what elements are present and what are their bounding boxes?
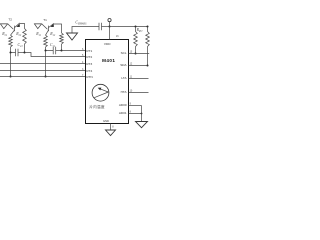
junction bbox=[141, 113, 143, 115]
svg-text:R22: R22 bbox=[15, 32, 22, 37]
svg-text:8: 8 bbox=[130, 111, 132, 114]
transistor T1 bbox=[46, 23, 54, 35]
svg-text:AD01: AD01 bbox=[119, 111, 127, 115]
svg-text:GND: GND bbox=[103, 119, 109, 123]
svg-text:16: 16 bbox=[116, 35, 119, 38]
svg-text:R11: R11 bbox=[35, 32, 41, 37]
junction bbox=[10, 76, 12, 78]
wire RTN bus bbox=[0, 76, 86, 78]
svg-text:8: 8 bbox=[112, 126, 114, 129]
junction bbox=[10, 52, 12, 54]
svg-text:12: 12 bbox=[130, 63, 133, 66]
wire SCL bbox=[129, 53, 150, 55]
svg-text:RT1: RT1 bbox=[86, 49, 92, 53]
resistor pull-up SCL bbox=[135, 27, 137, 32]
svg-text:10: 10 bbox=[130, 90, 133, 93]
svg-text:SCL: SCL bbox=[121, 51, 127, 55]
wire VDD pin bbox=[109, 27, 111, 40]
wire bbox=[61, 44, 63, 51]
IC U1 M401 body bbox=[86, 40, 129, 124]
wire bbox=[46, 47, 54, 51]
resistor R11 bbox=[35, 32, 47, 47]
on-chip sensor transistor bbox=[92, 84, 109, 101]
wire LTA bbox=[129, 78, 149, 80]
wire bbox=[56, 50, 62, 52]
svg-text:HTA: HTA bbox=[121, 90, 128, 94]
capacitor Cbypass bbox=[75, 21, 109, 31]
resistor R22 bbox=[15, 29, 26, 45]
ground bbox=[67, 33, 78, 40]
probe triangle T2 bbox=[0, 24, 7, 29]
svg-text:片内温度: 片内温度 bbox=[89, 104, 105, 109]
svg-text:RT2: RT2 bbox=[86, 55, 92, 59]
junction bbox=[147, 26, 149, 28]
wire collector rail bbox=[54, 24, 62, 33]
svg-text:T1: T1 bbox=[43, 18, 47, 22]
junction bbox=[61, 50, 63, 52]
capacitor C21 bbox=[16, 43, 24, 56]
probe triangle T1 bbox=[34, 24, 41, 29]
svg-text:CBYPASS: CBYPASS bbox=[75, 21, 87, 26]
wire T1 output to RT1 bbox=[62, 50, 86, 52]
svg-text:SDA: SDA bbox=[120, 63, 127, 67]
svg-text:AD00: AD00 bbox=[119, 103, 127, 107]
wire bbox=[18, 52, 25, 54]
junction bbox=[135, 26, 137, 28]
wire RT4 bus bbox=[0, 70, 86, 72]
wire bbox=[0, 23, 8, 25]
wire bbox=[34, 23, 42, 25]
wire GND pin bbox=[110, 124, 112, 131]
resistor pull-up SDA bbox=[147, 27, 149, 32]
junction bbox=[109, 26, 111, 28]
VDD terminal bbox=[108, 19, 111, 22]
wire bbox=[24, 44, 26, 53]
svg-text:RPU: RPU bbox=[136, 28, 144, 33]
svg-text:C21: C21 bbox=[18, 43, 24, 48]
wire T2 output to RT2 bbox=[25, 53, 86, 57]
junction bbox=[135, 53, 137, 55]
wire AD00 bbox=[129, 105, 142, 107]
capacitor C11 bbox=[50, 43, 56, 54]
wire RT3 bus bbox=[0, 63, 86, 65]
svg-text:RT4: RT4 bbox=[86, 69, 92, 73]
wire bbox=[42, 24, 48, 30]
resistor R21 bbox=[1, 32, 12, 47]
ground bbox=[136, 122, 148, 128]
wire SDA bbox=[129, 65, 148, 67]
junction bbox=[45, 76, 47, 78]
wire bbox=[109, 22, 111, 27]
wire collector rail bbox=[20, 24, 25, 29]
svg-text:15: 15 bbox=[130, 51, 133, 54]
svg-text:VDD: VDD bbox=[104, 42, 111, 46]
wire bbox=[8, 24, 14, 30]
svg-text:M401: M401 bbox=[102, 58, 115, 63]
wire AD01 bbox=[129, 114, 142, 122]
svg-text:R21: R21 bbox=[1, 32, 8, 37]
junction bbox=[147, 65, 149, 67]
wire HTA bbox=[129, 92, 149, 94]
wire bbox=[72, 27, 99, 34]
svg-text:C11: C11 bbox=[50, 43, 56, 48]
svg-text:RTN: RTN bbox=[86, 75, 92, 79]
svg-text:LTA: LTA bbox=[121, 76, 127, 80]
junction bbox=[24, 52, 26, 54]
ground bbox=[106, 130, 116, 136]
svg-text:T2: T2 bbox=[8, 18, 12, 22]
resistor R12 bbox=[49, 32, 63, 44]
svg-text:R12: R12 bbox=[49, 32, 56, 37]
wire bbox=[11, 47, 16, 53]
wire ground drop bbox=[45, 51, 47, 77]
svg-text:11: 11 bbox=[130, 76, 133, 79]
wire ground drop bbox=[10, 53, 12, 77]
transistor T2 bbox=[11, 23, 20, 35]
svg-text:9: 9 bbox=[130, 103, 132, 106]
svg-text:RT3: RT3 bbox=[86, 62, 92, 66]
junction bbox=[45, 50, 47, 52]
wire VDD rail bbox=[110, 26, 148, 28]
